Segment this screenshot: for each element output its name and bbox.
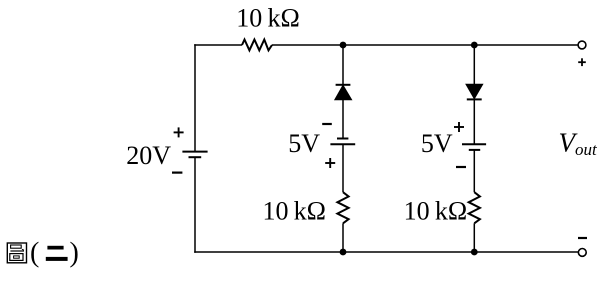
resistor R1 10kΩ (horizontal) bbox=[242, 40, 272, 51]
label V3 minus bbox=[456, 166, 466, 168]
diode D2 (cathode down) bbox=[466, 84, 483, 99]
wire left vertical upper bbox=[194, 44, 196, 151]
resistor R2 10kΩ (vertical branch1) bbox=[337, 192, 348, 223]
terminal top-right (open circle) bbox=[578, 41, 586, 49]
wire top-left segment bbox=[194, 44, 242, 46]
svg-text:20V: 20V bbox=[126, 141, 171, 170]
label figure caption (二) bbox=[30, 238, 79, 269]
terminal bottom-right (open circle) bbox=[578, 249, 586, 257]
wire branch1 mid2 bbox=[342, 144, 344, 192]
wire branch1 bottom bbox=[342, 223, 344, 252]
node C top junction branch 2 bbox=[471, 42, 478, 49]
wire branch2 mid1 bbox=[473, 99, 475, 144]
svg-text:5V: 5V bbox=[288, 129, 320, 158]
label terminal plus bbox=[578, 58, 586, 66]
node B bottom junction branch 1 bbox=[340, 249, 347, 256]
label V1 minus bbox=[172, 172, 182, 174]
svg-text:Vout: Vout bbox=[559, 128, 599, 160]
wire branch2 top bbox=[473, 45, 475, 85]
resistor R3 10kΩ (vertical branch2) bbox=[469, 192, 480, 223]
battery V2 5V (plus down) bbox=[330, 139, 355, 145]
wire left vertical lower bbox=[194, 157, 196, 253]
label figure caption 圖 glyph bbox=[7, 243, 26, 263]
wire branch1 mid1 bbox=[342, 99, 344, 139]
battery V3 5V (plus up) bbox=[462, 144, 486, 150]
wire top-right segment bbox=[272, 44, 578, 46]
label V3 plus bbox=[454, 122, 464, 132]
svg-text:5V: 5V bbox=[421, 129, 453, 158]
wire branch2 mid2 bbox=[473, 150, 475, 192]
wire branch2 bottom bbox=[473, 223, 475, 252]
battery V1 20V bbox=[182, 152, 207, 158]
wire bottom bbox=[194, 251, 578, 253]
node D bottom junction branch 2 bbox=[471, 249, 478, 256]
svg-text:10 kΩ: 10 kΩ bbox=[236, 4, 300, 33]
diode D1 (cathode up) bbox=[335, 85, 352, 100]
label V2 minus bbox=[322, 123, 332, 125]
svg-text:10 kΩ: 10 kΩ bbox=[262, 196, 326, 225]
label terminal minus bbox=[578, 237, 587, 239]
label V1 plus bbox=[174, 127, 184, 137]
svg-text:(: ( bbox=[30, 238, 39, 269]
wire branch1 top bbox=[342, 45, 344, 85]
label V2 plus bbox=[325, 158, 335, 168]
svg-text:10 kΩ: 10 kΩ bbox=[404, 196, 468, 225]
node A top junction branch 1 bbox=[340, 42, 347, 49]
svg-text:): ) bbox=[70, 238, 79, 269]
